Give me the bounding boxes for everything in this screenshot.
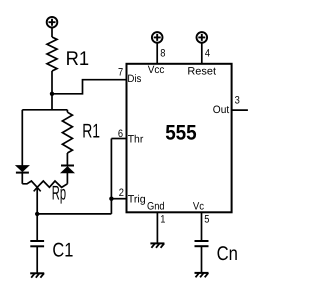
svg-text:2: 2 bbox=[119, 187, 124, 199]
svg-text:Out: Out bbox=[213, 104, 229, 116]
wire horizontal rail bbox=[22, 109, 67, 111]
svg-text:Rp: Rp bbox=[52, 182, 66, 204]
svg-text:7: 7 bbox=[118, 67, 123, 79]
node junction B (wiper) bbox=[35, 212, 39, 216]
capacitor C1 bbox=[30, 241, 44, 246]
svg-text:Dis: Dis bbox=[127, 73, 141, 85]
svg-text:4: 4 bbox=[205, 47, 210, 59]
diode D1 (left, cathode down) bbox=[16, 166, 29, 173]
power symbol +V pin 8 bbox=[152, 32, 163, 43]
wire pin 5 stub bbox=[201, 212, 203, 241]
svg-text:R1: R1 bbox=[66, 48, 90, 70]
ground (pin 1) bbox=[150, 243, 164, 247]
svg-text:1: 1 bbox=[160, 214, 165, 226]
wire power to R1 bbox=[51, 27, 53, 37]
resistor R1 (top) bbox=[47, 37, 57, 71]
wire pin 1 stub bbox=[156, 212, 158, 243]
svg-text:Cn: Cn bbox=[217, 243, 238, 265]
wire R1 lower to right diode bbox=[66, 153, 68, 166]
power symbol +V top-left bbox=[47, 17, 58, 28]
wire left diode to pot bbox=[21, 173, 23, 184]
wire pin 3 stub bbox=[232, 109, 248, 111]
wire to pin 6 Thr bbox=[111, 138, 126, 140]
capacitor Cn bbox=[195, 241, 209, 246]
svg-text:8: 8 bbox=[160, 47, 165, 59]
svg-text:Thr: Thr bbox=[128, 133, 144, 145]
svg-text:5: 5 bbox=[204, 214, 209, 226]
wire node A to pin 7 Dis bbox=[52, 80, 127, 94]
svg-text:Gnd: Gnd bbox=[147, 201, 165, 213]
svg-text:R1: R1 bbox=[82, 121, 100, 143]
svg-text:Vcc: Vcc bbox=[148, 64, 165, 76]
wire right diode to pot bbox=[66, 173, 68, 184]
svg-text:555: 555 bbox=[165, 121, 197, 144]
wire pin 4 stub bbox=[201, 43, 203, 64]
wire to pin 2 Trig bbox=[111, 198, 126, 200]
ground (under C1) bbox=[30, 273, 44, 277]
resistor R1 (lower) bbox=[62, 112, 72, 153]
wire rail to R1 lower bbox=[66, 110, 68, 112]
potentiometer Rp wiper arrow bbox=[34, 187, 41, 214]
power symbol +V pin 4 bbox=[197, 32, 208, 43]
svg-text:Reset: Reset bbox=[187, 66, 216, 78]
svg-text:Vc: Vc bbox=[193, 201, 205, 213]
svg-text:3: 3 bbox=[235, 94, 240, 106]
wire R1 bottom to horizontal rail bbox=[51, 71, 53, 110]
wire node B to C1 bbox=[36, 214, 38, 241]
op-amp U1 555 chip body bbox=[127, 64, 232, 213]
wire Cn to ground bbox=[201, 246, 203, 273]
ground (under Cn) bbox=[195, 273, 209, 277]
svg-text:C1: C1 bbox=[52, 240, 73, 262]
node junction C (Trig) bbox=[109, 197, 113, 201]
wire wiper to Trig column bbox=[37, 213, 111, 215]
wire C1 to ground bbox=[36, 246, 38, 273]
wire Thr/Trig vertical bbox=[110, 139, 112, 214]
svg-text:Trig: Trig bbox=[128, 193, 146, 205]
node junction A bbox=[50, 92, 54, 96]
svg-text:6: 6 bbox=[118, 128, 123, 140]
potentiometer Rp body bbox=[22, 181, 67, 187]
wire pin 8 stub bbox=[156, 43, 158, 64]
diode D2 (right, cathode up) bbox=[61, 166, 74, 173]
wire rail to left diode bbox=[21, 110, 23, 166]
